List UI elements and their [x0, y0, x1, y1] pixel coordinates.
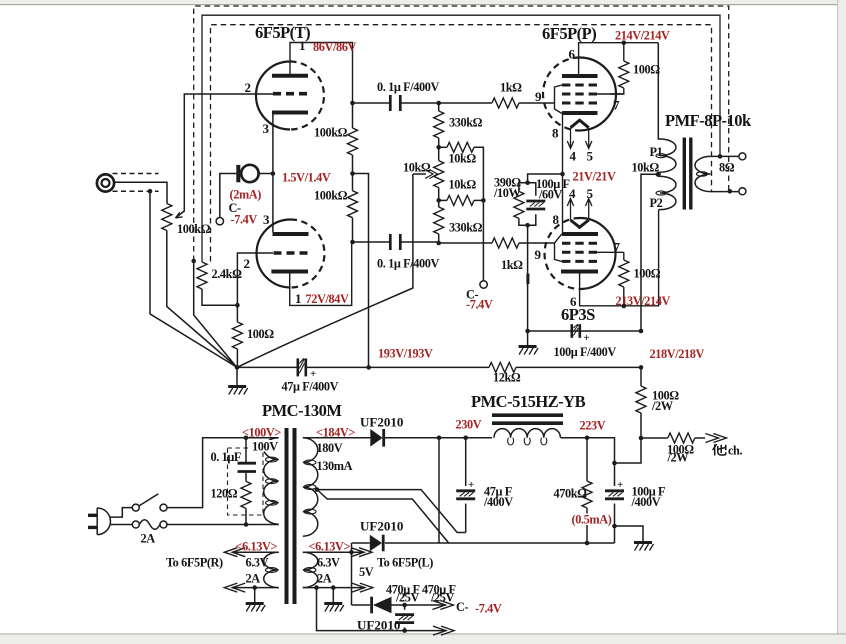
- svg-text:10kΩ: 10kΩ: [632, 161, 660, 175]
- V3 grid row g2: [562, 251, 597, 254]
- T2 HV secondary winding: [303, 438, 318, 536]
- svg-text:8Ω: 8Ω: [719, 161, 735, 175]
- V3 grid bracket: [555, 234, 563, 262]
- T2 primary crossover ellipses: [266, 457, 278, 462]
- svg-text:100kΩ: 100kΩ: [314, 126, 348, 140]
- capacitor C8 100uF/400V lead from 223V: [614, 463, 616, 486]
- svg-text:470kΩ: 470kΩ: [554, 487, 588, 501]
- triode V1a circle (6F5P(T) upper): [256, 62, 290, 130]
- ground GND1: [236, 367, 238, 385]
- triode V1b circle (6F5P(T) lower): [257, 220, 291, 288]
- svg-text:1kΩ: 1kΩ: [501, 258, 523, 272]
- page top band: [0, 0, 846, 5]
- V2 heater chevron: [571, 120, 589, 128]
- wire network bottom to 218V filter/ground: [527, 225, 529, 331]
- T2 left 6.3V winding: [264, 552, 279, 587]
- T2 right 6.3V winding: [303, 552, 318, 587]
- capacitor C3 100uF/60V leads: [528, 183, 536, 226]
- T1 centre tap wire to B+: [641, 174, 658, 331]
- C8 bottom lead: [614, 504, 616, 543]
- svg-text:+: +: [310, 368, 316, 380]
- svg-text:/400V: /400V: [631, 495, 661, 509]
- svg-text:/25V: /25V: [430, 591, 455, 605]
- potentiometer VR2 10k balance: [438, 147, 440, 160]
- V2 screen lead to 100R: [597, 93, 624, 95]
- V2 grid row g2: [562, 93, 597, 96]
- resistor R4 100k upper: [352, 103, 354, 128]
- wire meter to C- terminal: [220, 174, 237, 218]
- wire right 6.3V bottom with 5V arrow: [303, 587, 365, 589]
- C- terminal circle upper: [216, 218, 223, 225]
- wire ground node diagonal to VR2 wiper: [237, 174, 413, 367]
- 218V filter wire: [528, 330, 641, 332]
- V3 cathode bar: [562, 232, 598, 236]
- svg-text:+: +: [617, 479, 623, 491]
- ground GND4 stub: [254, 588, 256, 602]
- svg-text:UF2010: UF2010: [360, 519, 403, 534]
- V2 grid row g1: [562, 84, 597, 87]
- svg-text:/2W: /2W: [667, 451, 690, 465]
- svg-text:To 6F5P(R): To 6F5P(R): [166, 556, 223, 570]
- V2 plate bar: [562, 74, 598, 78]
- svg-text:7: 7: [614, 240, 621, 255]
- svg-text:180V: 180V: [317, 441, 343, 455]
- shared cathode line of input triodes: [272, 114, 274, 232]
- wire choke to 223V corner: [561, 438, 615, 463]
- T1 centre tap crossover: [656, 172, 660, 176]
- svg-text:5V: 5V: [359, 565, 374, 579]
- thick mark on vertical (as in source): [526, 274, 529, 285]
- capacitor C7 body: [456, 491, 475, 499]
- svg-text:10kΩ: 10kΩ: [403, 161, 431, 175]
- svg-text:-7.4V: -7.4V: [466, 298, 493, 312]
- wire C- output line: [352, 604, 371, 606]
- svg-text:UF2010: UF2010: [357, 618, 400, 633]
- page right band: [837, 0, 846, 644]
- svg-text:100kΩ: 100kΩ: [314, 189, 348, 203]
- T2 HV crossover ellipses: [304, 460, 316, 465]
- diode D3 UF2010 (pointing left): [370, 597, 373, 614]
- switch S1 lever: [139, 494, 158, 506]
- resistor R8 10k lower horizontal: [439, 199, 447, 201]
- coupling cap C1 0.1uF bars: [390, 95, 400, 111]
- svg-text:10kΩ: 10kΩ: [449, 152, 477, 166]
- svg-text:230V: 230V: [456, 418, 482, 432]
- wire cathode node to bias network: [528, 174, 563, 183]
- HV centre tap to 47uF bottom (polyline A): [317, 490, 466, 533]
- svg-text:2A: 2A: [317, 572, 332, 586]
- V2 cathode bar: [562, 111, 598, 115]
- wire HV winding to diode D1: [303, 437, 371, 439]
- svg-text:100Ω: 100Ω: [247, 327, 274, 341]
- wire plug to switch: [110, 508, 132, 517]
- wire 2.4k bottom to grid-return node: [202, 289, 237, 305]
- wire B+ tap of chain: [353, 174, 369, 368]
- svg-text:330kΩ: 330kΩ: [449, 221, 483, 235]
- wire C2 to lower 330k node: [402, 241, 439, 243]
- svg-text:3: 3: [263, 121, 270, 136]
- wire secondary bottom to terminal: [711, 191, 739, 193]
- V3 heater chevron: [571, 220, 589, 227]
- snubber dashed box: [228, 448, 264, 515]
- svg-text:(2mA): (2mA): [230, 188, 262, 202]
- resistor R16 100R/2W vertical: [640, 367, 642, 386]
- wire jack tip to volume pot: [115, 182, 167, 203]
- svg-text:8: 8: [552, 126, 559, 141]
- svg-text:2: 2: [245, 80, 252, 95]
- svg-text:6: 6: [570, 294, 577, 309]
- svg-text:100Ω: 100Ω: [634, 267, 661, 281]
- 193V rail wire with 47uF: [237, 366, 489, 368]
- svg-text:4: 4: [569, 186, 576, 201]
- svg-text:5: 5: [587, 186, 594, 201]
- resistor R12 100R screen upper: [623, 43, 625, 61]
- output terminal circle top: [739, 153, 746, 160]
- wire left 6.3V bottom with arrow: [232, 587, 279, 589]
- diode D1 UF2010: [370, 429, 382, 447]
- pentode V3 circle (6P3S lower): [580, 218, 616, 289]
- svg-text:7: 7: [613, 98, 620, 113]
- wire left 6.3V top with arrow To 6F5P(R): [232, 551, 279, 553]
- wire D2 anode: [352, 542, 370, 544]
- svg-text:To 6F5P(L): To 6F5P(L): [377, 556, 433, 570]
- svg-text:PMC-130M: PMC-130M: [262, 401, 342, 420]
- C7 bottom lead: [465, 504, 467, 533]
- wire winding bottom to lower rail: [317, 588, 447, 631]
- resistor R17 100R/2W to other channel: [641, 437, 668, 439]
- svg-text:2.4kΩ: 2.4kΩ: [212, 267, 243, 281]
- resistor R13 100R screen lower: [623, 252, 625, 260]
- wire right 6.3V top with arrow To 6F5P(L): [303, 551, 365, 553]
- V2 plate lead to 214V rail: [579, 43, 659, 76]
- T1 P2 crossover ellipse: [656, 191, 666, 195]
- solid NFB rectangle (8ohm top to 2.4k): [202, 15, 720, 262]
- svg-text:6: 6: [569, 47, 576, 62]
- resistor R10 1k upper grid stopper: [439, 102, 492, 104]
- svg-text:PMF-8P-10k: PMF-8P-10k: [665, 111, 752, 130]
- wire C1 to 330k node: [402, 102, 439, 104]
- svg-text:-7.4V: -7.4V: [231, 213, 258, 227]
- potentiometer VR1 100k: [162, 204, 172, 231]
- C- terminal circle middle: [480, 281, 487, 288]
- svg-text:1: 1: [299, 38, 306, 53]
- wire switch to primary top: [167, 438, 279, 508]
- jack shield dashed stub top: [113, 173, 159, 175]
- capacitor C3 body: [526, 201, 545, 209]
- svg-text:6F5P(P): 6F5P(P): [542, 24, 596, 43]
- arrow to other channel: [705, 434, 726, 443]
- svg-text:/2W: /2W: [651, 399, 674, 413]
- pentode V2 circle (6F5P(P) upper): [580, 58, 617, 131]
- wire secondary top to terminal: [711, 155, 739, 157]
- svg-text:/25V: /25V: [395, 591, 420, 605]
- ground GND2: [527, 331, 529, 345]
- svg-text:223V: 223V: [580, 419, 606, 433]
- input jack J1: [97, 174, 114, 191]
- svg-text:4: 4: [570, 149, 577, 164]
- svg-text:0. 1μ F/400V: 0. 1μ F/400V: [377, 257, 439, 271]
- 0V wire: [385, 542, 615, 544]
- svg-text:1: 1: [295, 291, 302, 306]
- svg-text:100V: 100V: [252, 440, 278, 454]
- wire D1 to choke: [385, 437, 492, 439]
- svg-text:72V/84V: 72V/84V: [306, 292, 349, 306]
- V2 grid row g3: [562, 102, 597, 105]
- wire plug to fuse: [110, 524, 132, 526]
- svg-text:86V/86V: 86V/86V: [313, 40, 356, 54]
- resistor R19 470k: [586, 438, 588, 481]
- resistor R2 2.4k: [201, 261, 203, 263]
- V1b cathode bar: [273, 232, 309, 236]
- svg-text:/60V: /60V: [538, 188, 563, 202]
- svg-text:100kΩ: 100kΩ: [177, 222, 211, 236]
- svg-text:5: 5: [587, 149, 594, 164]
- transformer T2 primary winding: [264, 438, 279, 524]
- svg-text:UF2010: UF2010: [360, 415, 403, 430]
- V1a plate lead to 100k chain: [290, 43, 353, 104]
- svg-text:6P3S: 6P3S: [561, 305, 595, 324]
- mystery vertical B+ to 0V wire: [438, 438, 440, 543]
- V1b grid dashes: [274, 251, 308, 255]
- wire winding top down to diodes: [351, 543, 353, 605]
- switch S1 circles: [132, 504, 139, 511]
- wire outer-dashed line to ground node: [194, 261, 237, 367]
- svg-text:<6.13V>: <6.13V>: [309, 540, 351, 554]
- resistor R14 390R/10W: [519, 183, 528, 192]
- svg-text:330kΩ: 330kΩ: [449, 116, 483, 130]
- choke L1 PMC-515HZ-YB core bars: [492, 415, 563, 423]
- outer dashed feedback rectangle (to 8ohm bottom): [194, 6, 729, 261]
- svg-text:0. 1μ F/400V: 0. 1μ F/400V: [377, 80, 439, 94]
- V2 heater lead 5 with down arrow: [586, 128, 592, 149]
- svg-text:P2: P2: [650, 196, 663, 210]
- capacitor C9 body: [395, 615, 414, 623]
- T1 primary P2 winding: [659, 176, 676, 209]
- V3 plate bar: [561, 270, 598, 274]
- V3 heater lead 5 with up arrow: [586, 199, 592, 221]
- T1 core bars: [683, 138, 686, 210]
- ground GND5 stub: [332, 588, 334, 602]
- svg-text:PMC-515HZ-YB: PMC-515HZ-YB: [471, 392, 586, 411]
- svg-text:+: +: [468, 479, 474, 491]
- svg-text:6.3V: 6.3V: [317, 556, 340, 570]
- V2 heater lead 4 with down arrow: [567, 128, 573, 149]
- wire 10k junction to C- terminal: [482, 200, 484, 280]
- AC plug prongs: [88, 515, 97, 527]
- V1b plate bar: [271, 270, 308, 274]
- inner dashed rectangle (to 8ohm bottom): [211, 25, 712, 262]
- svg-text:12kΩ: 12kΩ: [493, 371, 521, 385]
- capacitor C8 body: [605, 491, 624, 499]
- AC plug body: [97, 508, 110, 535]
- svg-text:1kΩ: 1kΩ: [500, 81, 522, 95]
- wire pot bottom to ground node: [167, 231, 236, 367]
- capacitor C7 47uF/400V lead: [465, 438, 467, 486]
- svg-text:218V/218V: 218V/218V: [650, 347, 705, 361]
- svg-text:9: 9: [535, 89, 542, 104]
- svg-text:130mA: 130mA: [317, 459, 353, 473]
- wire grid of upper triode to pot wiper: [176, 94, 274, 218]
- svg-text:1.5V/1.4V: 1.5V/1.4V: [282, 171, 331, 185]
- capacitor C5 47uF/400V (193V): [298, 358, 306, 376]
- junction dots: [148, 189, 153, 194]
- bias meter M1 circle: [241, 165, 258, 182]
- svg-text:P1: P1: [650, 145, 663, 159]
- V3 screen lead to 100R: [597, 251, 624, 253]
- fuse F1 2A: [132, 521, 139, 528]
- T1 secondary winding: [695, 156, 711, 191]
- output transformer T1 primary P1 winding: [658, 43, 676, 173]
- svg-text:9: 9: [535, 247, 542, 262]
- svg-text:C-: C-: [456, 600, 468, 614]
- resistor R9 330k lower: [434, 207, 444, 234]
- wire jack sleeve to ground node: [150, 191, 236, 367]
- label 100V black (over winding): [251, 440, 281, 452]
- wire lower triode grid: [237, 253, 273, 305]
- resistor R11 1k lower grid stopper: [439, 242, 492, 244]
- svg-text:2: 2: [244, 256, 251, 271]
- svg-text:193V/193V: 193V/193V: [378, 347, 433, 361]
- svg-text:10kΩ: 10kΩ: [449, 178, 477, 192]
- svg-text:3: 3: [263, 212, 270, 227]
- V3 plate lead to P2: [580, 210, 659, 306]
- resistor R15 12k: [489, 362, 516, 372]
- V2 grid bracket: [555, 85, 563, 114]
- svg-text:2A: 2A: [141, 532, 156, 546]
- wiper arrowhead: [176, 212, 183, 218]
- capacitor C4 100uF/400V (218V): [572, 324, 580, 338]
- V1a cathode bar: [272, 111, 308, 115]
- label ta ch.: [713, 444, 726, 456]
- wire fuse to primary bottom: [167, 524, 279, 526]
- resistor R3 100R cathode...grid-return to ground: [236, 305, 238, 322]
- V3 grid row g1: [562, 242, 597, 245]
- svg-text:/400V: /400V: [483, 495, 513, 509]
- bias meter M1 bar: [236, 165, 240, 182]
- svg-text:120Ω: 120Ω: [211, 487, 238, 501]
- T1 secondary crossover ellipse: [697, 172, 708, 176]
- resistor R5 100k lower: [352, 174, 354, 191]
- T2 core bars: [285, 428, 289, 604]
- resistor R18 120R: [241, 481, 251, 508]
- shared cathode line of power tubes: [562, 114, 564, 233]
- svg-text:2A: 2A: [246, 572, 261, 586]
- HV centre tap to 0V wire (polyline B): [318, 490, 449, 543]
- output terminal circle bottom: [739, 188, 746, 195]
- svg-text:100μ F/400V: 100μ F/400V: [554, 345, 617, 359]
- wire chain bottom to coupling cap C2: [353, 241, 390, 243]
- svg-text:214V/214V: 214V/214V: [615, 29, 670, 43]
- page bottom band: [0, 633, 846, 644]
- svg-text:<6.13V>: <6.13V>: [236, 540, 278, 554]
- coupling cap C2 0.1uF bars: [390, 234, 400, 250]
- svg-text:47μ F/400V: 47μ F/400V: [282, 380, 339, 394]
- resistor R6 330k upper: [438, 103, 440, 111]
- capacitor C6 0.1uF line filter: [245, 438, 247, 462]
- resistor R7 10k upper horizontal: [439, 146, 447, 148]
- ground GND3 stub: [615, 526, 644, 541]
- VR2 wiper arrow from left: [413, 173, 426, 175]
- choke crossover loops: [508, 438, 547, 445]
- V3 heater lead 4 with up arrow: [567, 199, 573, 221]
- svg-text:0. 1μF: 0. 1μF: [211, 450, 242, 464]
- wire plate node to coupling cap C1: [353, 102, 390, 104]
- V1a grid dashes: [273, 92, 307, 96]
- V1a plate bar: [272, 74, 308, 78]
- svg-text:+: +: [584, 332, 590, 344]
- V1b plate lead to chain bottom: [290, 242, 352, 305]
- jack shield dashed stub bottom: [113, 190, 159, 192]
- choke L1 winding: [494, 429, 560, 438]
- svg-text:(0.5mA): (0.5mA): [572, 513, 612, 527]
- svg-text:ch.: ch.: [728, 444, 742, 458]
- svg-text:/10W: /10W: [493, 186, 522, 200]
- svg-text:21V/21V: 21V/21V: [573, 170, 616, 184]
- label (0.5mA) red knockout: [570, 514, 612, 526]
- svg-text:100Ω: 100Ω: [633, 63, 660, 77]
- diode D2 UF2010: [370, 535, 382, 552]
- svg-text:6.3V: 6.3V: [246, 556, 269, 570]
- svg-text:<184V>: <184V>: [316, 426, 355, 440]
- capacitor C9 470uF/25V leads: [404, 605, 406, 631]
- T1 P1 crossover ellipse: [656, 154, 666, 158]
- V3 grid row g3: [562, 260, 597, 263]
- svg-text:-7.4V: -7.4V: [475, 602, 502, 616]
- wire meter to cathodes: [259, 173, 273, 175]
- svg-text:8: 8: [553, 212, 560, 227]
